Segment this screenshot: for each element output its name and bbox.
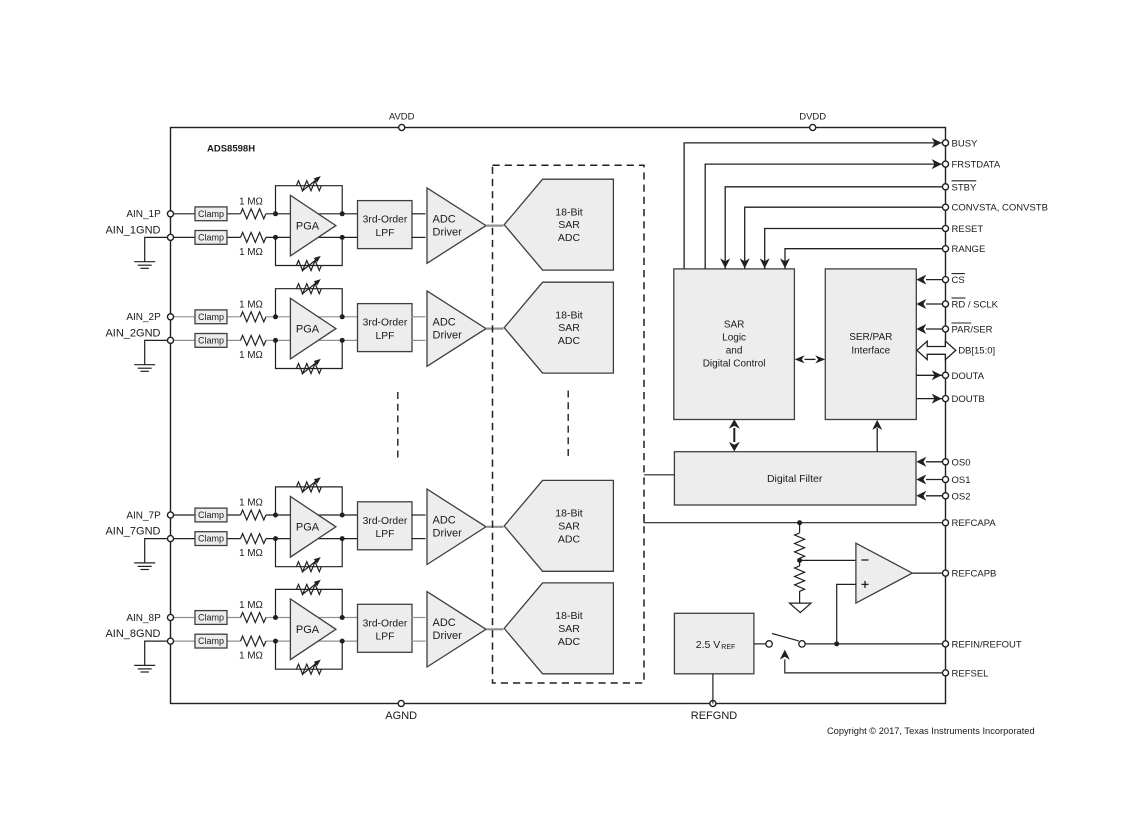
wire AIN_2GND to ground	[145, 340, 168, 364]
junction non-inverting tap on REFIN net	[834, 641, 839, 646]
svg-text:AIN_1P: AIN_1P	[126, 209, 161, 220]
svg-text:AIN_1GND: AIN_1GND	[105, 224, 160, 236]
arrow CONVSTA input to SAR logic	[740, 258, 750, 268]
arrow REFSEL actuates switch	[780, 650, 790, 660]
arrow STBY input to SAR logic	[720, 258, 730, 268]
svg-text:REFCAPB: REFCAPB	[952, 569, 997, 580]
svg-text:LPF: LPF	[376, 228, 395, 239]
junction channel 7 P feedback	[340, 513, 345, 518]
pin DOUTB	[942, 396, 948, 402]
arrow RESET input to SAR logic	[760, 258, 770, 268]
wire REFSEL control	[785, 660, 942, 673]
low-pass filter block channel 8	[358, 604, 413, 652]
wire AIN_7P input path	[171, 514, 241, 516]
svg-text:AGND: AGND	[385, 710, 417, 722]
pin AVDD	[399, 124, 405, 130]
wire AIN_2P input path	[171, 316, 241, 318]
wire STBY	[725, 187, 942, 269]
digital filter block	[674, 452, 916, 505]
wire feedback bottom channel 2	[276, 340, 343, 368]
svg-text:Clamp: Clamp	[198, 636, 224, 646]
variable resistor feedback bottom channel 8	[296, 664, 321, 674]
wire BUSY	[684, 143, 942, 269]
resistor reference divider upper	[799, 523, 801, 533]
svg-text:Clamp: Clamp	[198, 613, 224, 623]
wire feedback top channel 2	[276, 289, 343, 317]
wire ADC driver to SAR ADC channel 1	[486, 225, 503, 227]
svg-text:and: and	[726, 345, 743, 356]
wire AIN_7GND to ground	[145, 539, 168, 563]
wire AIN_2GND input path	[171, 339, 241, 341]
ground symbol reference divider	[790, 603, 812, 613]
pin AIN_8P	[167, 614, 173, 620]
svg-text:ADC: ADC	[558, 533, 581, 545]
variable resistor feedback top channel 8	[296, 584, 321, 594]
resistor 1 MOhm channel 8 P	[241, 613, 266, 623]
svg-text:3rd-Order: 3rd-Order	[363, 618, 408, 629]
pin AIN_7GND	[167, 536, 173, 542]
resistor 1 MOhm channel 7 GND	[241, 534, 266, 544]
wire feedback bottom channel 7	[276, 539, 343, 567]
wire AIN_1P input path	[171, 213, 241, 215]
device boundary ADS8598H	[171, 128, 946, 704]
ADC driver amplifier channel 8	[427, 592, 486, 667]
18-bit SAR ADC channel 1	[504, 179, 613, 270]
wire RD/SCLK input	[926, 303, 942, 305]
svg-text:ADC: ADC	[558, 335, 581, 347]
wire LPF to ADC driver channel 1 P	[412, 213, 426, 215]
junction divider midpoint	[797, 558, 802, 563]
svg-text:Clamp: Clamp	[198, 335, 224, 345]
pin REFGND	[710, 700, 716, 706]
svg-text:2.5 V: 2.5 V	[696, 639, 721, 651]
svg-text:Digital Filter: Digital Filter	[767, 473, 823, 485]
svg-text:ADS8598H: ADS8598H	[207, 144, 255, 155]
arrow RANGE input to SAR logic	[780, 258, 790, 268]
wire ADC driver to SAR ADC channel 2	[486, 328, 503, 330]
svg-text:FRSTDATA: FRSTDATA	[952, 160, 1001, 171]
svg-text:PAR/SER: PAR/SER	[952, 325, 993, 336]
wire VREF to REFGND	[712, 674, 714, 704]
junction channel 1 P input	[273, 211, 278, 216]
wire ADC driver to SAR ADC channel 8	[486, 628, 503, 630]
wire divider midpoint to op-amp inverting input	[800, 559, 856, 561]
svg-text:REFIN/REFOUT: REFIN/REFOUT	[952, 639, 1022, 650]
PGA amplifier channel 7	[290, 497, 336, 558]
svg-text:Clamp: Clamp	[198, 510, 224, 520]
pin RANGE	[942, 246, 948, 252]
svg-text:AIN_7GND: AIN_7GND	[105, 526, 160, 538]
svg-text:LPF: LPF	[376, 632, 395, 643]
switch blade	[772, 634, 799, 641]
wire RESET	[765, 229, 943, 269]
svg-text:18-Bit: 18-Bit	[555, 206, 583, 218]
svg-text:ADC: ADC	[433, 214, 456, 226]
wire LPF to ADC driver channel 8 GND	[412, 640, 426, 642]
svg-text:3rd-Order: 3rd-Order	[363, 516, 408, 527]
pin FRSTDATA	[942, 161, 948, 167]
voltage reference block 2.5 V	[674, 613, 754, 674]
wire DOUTA output	[916, 374, 942, 376]
ground symbol channel 2	[134, 364, 155, 366]
svg-text:Clamp: Clamp	[198, 209, 224, 219]
junction channel 8 GND feedback	[340, 639, 345, 644]
resistor 1 MOhm channel 1 P	[241, 209, 266, 219]
pin REFCAPB	[942, 570, 948, 576]
svg-text:REFCAPA: REFCAPA	[952, 518, 997, 529]
svg-text:REFGND: REFGND	[691, 710, 738, 722]
junction REFCAPA resistor tap	[797, 520, 802, 525]
ground symbol channel 8	[134, 664, 155, 666]
wire REFCAPA net	[644, 515, 942, 523]
arrow BUSY output	[932, 138, 942, 148]
junction channel 7 GND input	[273, 536, 278, 541]
pin AIN_2GND	[167, 337, 173, 343]
ADC driver amplifier channel 2	[427, 291, 486, 366]
svg-text:SAR: SAR	[558, 219, 580, 231]
svg-text:Logic: Logic	[722, 332, 746, 343]
resistor 1 MOhm channel 8 GND	[241, 636, 266, 646]
wire CONVSTA	[745, 207, 943, 269]
PGA amplifier channel 2	[290, 298, 336, 359]
clamp block channel 1 P	[195, 207, 227, 221]
SAR logic and digital control block	[674, 269, 795, 420]
wire feedback top channel 8	[276, 589, 343, 617]
svg-text:LPF: LPF	[376, 331, 395, 342]
svg-text:PGA: PGA	[296, 220, 320, 232]
svg-text:OS1: OS1	[952, 475, 971, 486]
PGA amplifier channel 1	[290, 195, 336, 256]
clamp block channel 2 GND	[195, 334, 227, 348]
svg-text:1 MΩ: 1 MΩ	[239, 299, 263, 310]
svg-text:OS0: OS0	[952, 457, 971, 468]
wire AIN_8GND to ground	[145, 641, 168, 665]
svg-text:SAR: SAR	[558, 623, 580, 635]
svg-text:1 MΩ: 1 MΩ	[239, 196, 263, 207]
variable resistor feedback bottom channel 1	[296, 261, 321, 271]
junction channel 8 P input	[273, 615, 278, 620]
svg-text:Copyright © 2017, Texas Instru: Copyright © 2017, Texas Instruments Inco…	[827, 726, 1035, 736]
pin REFSEL	[942, 670, 948, 676]
wire DOUTB output	[916, 398, 942, 400]
low-pass filter block channel 7	[358, 502, 413, 550]
svg-text:AIN_2GND: AIN_2GND	[105, 327, 160, 339]
ground symbol channel 1	[134, 261, 155, 263]
bus digital filter to SER/PAR interface	[876, 428, 878, 452]
variable resistor feedback bottom channel 2	[296, 364, 321, 374]
wire AIN_8GND input path	[171, 640, 241, 642]
wire RANGE	[785, 249, 942, 269]
low-pass filter block channel 2	[358, 304, 413, 352]
wire feedback top channel 1	[276, 186, 343, 214]
resistor 1 MOhm channel 7 P	[241, 510, 266, 520]
op-amp reference buffer	[856, 543, 912, 603]
pin RD / SCLK	[942, 301, 948, 307]
pin AGND	[398, 700, 404, 706]
bus DB[15:0] hollow double arrow	[917, 341, 956, 359]
18-bit SAR ADC channel 2	[504, 282, 613, 373]
resistor 1 MOhm channel 2 P	[241, 312, 266, 322]
resistor 1 MOhm channel 2 GND	[241, 335, 266, 345]
junction channel 1 GND feedback	[340, 235, 345, 240]
wire feedback bottom channel 8	[276, 641, 343, 669]
pin REFIN/REFOUT	[942, 641, 948, 647]
resistor reference divider lower	[799, 560, 801, 566]
junction channel 2 P feedback	[340, 314, 345, 319]
wire LPF to ADC driver channel 7 P	[412, 514, 426, 516]
wire LPF to ADC driver channel 2 GND	[412, 339, 426, 341]
continuation dashed line SAR ADC column	[567, 391, 569, 459]
wire feedback top channel 7	[276, 487, 343, 515]
pin AIN_1P	[167, 211, 173, 217]
pin AIN_8GND	[167, 638, 173, 644]
wire op-amp output to REFCAPB	[912, 572, 942, 574]
arrow FRSTDATA output	[932, 159, 942, 169]
junction channel 7 GND feedback	[340, 536, 345, 541]
wire LPF to ADC driver channel 8 P	[412, 617, 426, 619]
svg-text:ADC: ADC	[558, 636, 581, 648]
pin AIN_1GND	[167, 234, 173, 240]
svg-text:REFSEL: REFSEL	[952, 668, 989, 679]
junction channel 1 GND input	[273, 235, 278, 240]
pin DOUTA	[942, 372, 948, 378]
svg-text:18-Bit: 18-Bit	[555, 610, 583, 622]
svg-text:Clamp: Clamp	[198, 534, 224, 544]
pin RESET	[942, 225, 948, 231]
wire VREF to switch	[754, 643, 766, 645]
svg-text:Digital Control: Digital Control	[703, 358, 766, 369]
junction channel 7 P input	[273, 513, 278, 518]
wire feedback bottom channel 1	[276, 237, 343, 265]
wire OS1 input	[926, 479, 942, 481]
svg-text:Driver: Driver	[433, 330, 463, 342]
svg-text:1 MΩ: 1 MΩ	[239, 548, 263, 559]
junction channel 1 P feedback	[340, 211, 345, 216]
wire AIN_1GND input path	[171, 236, 241, 238]
svg-text:OS2: OS2	[952, 491, 971, 502]
svg-text:SER/PAR: SER/PAR	[849, 332, 892, 343]
svg-text:DOUTA: DOUTA	[952, 371, 985, 382]
wire LPF to ADC driver channel 1 GND	[412, 236, 426, 238]
svg-text:AIN_8GND: AIN_8GND	[105, 628, 160, 640]
18-bit SAR ADC channel 7	[504, 480, 613, 571]
svg-text:1 MΩ: 1 MΩ	[239, 600, 263, 611]
bidirectional bus SAR logic to SER/PAR	[805, 358, 816, 360]
svg-text:REF: REF	[721, 644, 735, 651]
resistor 1 MOhm channel 1 GND	[241, 232, 266, 242]
svg-text:PGA: PGA	[296, 522, 320, 534]
svg-text:CONVSTA, CONVSTB: CONVSTA, CONVSTB	[952, 203, 1048, 214]
svg-text:DVDD: DVDD	[799, 112, 826, 123]
18-bit SAR ADC channel 8	[504, 583, 613, 674]
svg-text:RD / SCLK: RD / SCLK	[952, 300, 999, 311]
ADC driver amplifier channel 1	[427, 188, 486, 263]
pin CONVSTA	[942, 204, 948, 210]
svg-text:18-Bit: 18-Bit	[555, 508, 583, 520]
junction channel 8 GND input	[273, 639, 278, 644]
wire OS0 input	[926, 461, 942, 463]
wire digital filter to ADC group	[644, 474, 674, 476]
svg-text:STBY: STBY	[952, 182, 977, 193]
pin AIN_7P	[167, 512, 173, 518]
wire OS2 input	[926, 495, 942, 497]
svg-text:1 MΩ: 1 MΩ	[239, 247, 263, 258]
svg-text:ADC: ADC	[433, 317, 456, 329]
variable resistor feedback bottom channel 7	[296, 562, 321, 572]
pin STBY	[942, 184, 948, 190]
svg-text:SAR: SAR	[724, 319, 745, 330]
SER/PAR interface block	[825, 269, 916, 420]
pin DVDD	[810, 124, 816, 130]
wire LPF to ADC driver channel 7 GND	[412, 538, 426, 540]
clamp block channel 7 GND	[195, 532, 227, 546]
svg-text:PGA: PGA	[296, 323, 320, 335]
svg-text:ADC: ADC	[433, 617, 456, 629]
dashed group box SAR ADC array	[493, 165, 645, 683]
pin REFCAPA	[942, 520, 948, 526]
svg-text:PGA: PGA	[296, 624, 320, 636]
wire AIN_7GND input path	[171, 538, 241, 540]
pin OS1	[942, 476, 948, 482]
svg-text:AIN_2P: AIN_2P	[126, 312, 161, 323]
svg-text:LPF: LPF	[376, 529, 395, 540]
clamp block channel 8 P	[195, 611, 227, 625]
wire ADC driver to SAR ADC channel 7	[486, 526, 503, 528]
svg-text:ADC: ADC	[433, 515, 456, 527]
svg-text:1 MΩ: 1 MΩ	[239, 350, 263, 361]
svg-text:Driver: Driver	[433, 227, 463, 239]
junction channel 2 GND input	[273, 338, 278, 343]
svg-text:RANGE: RANGE	[952, 244, 986, 255]
clamp block channel 1 GND	[195, 231, 227, 245]
pin AIN_2P	[167, 314, 173, 320]
svg-text:BUSY: BUSY	[952, 138, 979, 149]
svg-text:CS: CS	[952, 275, 965, 286]
svg-text:3rd-Order: 3rd-Order	[363, 318, 408, 329]
clamp block channel 8 GND	[195, 634, 227, 648]
svg-text:3rd-Order: 3rd-Order	[363, 215, 408, 226]
svg-text:Driver: Driver	[433, 630, 463, 642]
svg-text:Driver: Driver	[433, 528, 463, 540]
pin OS0	[942, 459, 948, 465]
pin CS	[942, 277, 948, 283]
low-pass filter block channel 1	[358, 201, 413, 249]
bidirectional bus SAR logic to digital filter	[733, 428, 735, 442]
wire AIN_8P input path	[171, 617, 241, 619]
variable resistor feedback top channel 1	[296, 181, 321, 191]
svg-text:1 MΩ: 1 MΩ	[239, 651, 263, 662]
wire switch to REFIN/REFOUT	[805, 643, 942, 645]
junction channel 2 GND feedback	[340, 338, 345, 343]
variable resistor feedback top channel 7	[296, 482, 321, 492]
wire op-amp non-inverting input to REFIN	[837, 584, 856, 644]
svg-text:AIN_8P: AIN_8P	[126, 613, 161, 624]
pin OS2	[942, 493, 948, 499]
wire LPF to ADC driver channel 2 P	[412, 316, 426, 318]
PGA amplifier channel 8	[290, 599, 336, 660]
pin PAR/SER	[942, 326, 948, 332]
junction channel 2 P input	[273, 314, 278, 319]
svg-text:SAR: SAR	[558, 322, 580, 334]
svg-text:DOUTB: DOUTB	[952, 394, 985, 405]
svg-text:SAR: SAR	[558, 520, 580, 532]
svg-text:Clamp: Clamp	[198, 312, 224, 322]
wire CS input	[926, 279, 942, 281]
svg-text:AVDD: AVDD	[389, 112, 415, 123]
svg-text:18-Bit: 18-Bit	[555, 309, 583, 321]
svg-text:AIN_7P: AIN_7P	[126, 510, 161, 521]
pin BUSY	[942, 140, 948, 146]
variable resistor feedback top channel 2	[296, 284, 321, 294]
switch REFSEL pole	[766, 641, 772, 647]
junction channel 8 P feedback	[340, 615, 345, 620]
svg-text:Interface: Interface	[851, 346, 890, 357]
svg-text:1 MΩ: 1 MΩ	[239, 498, 263, 509]
wire AIN_1GND to ground	[145, 237, 168, 261]
clamp block channel 7 P	[195, 508, 227, 522]
svg-text:DB[15:0]: DB[15:0]	[958, 346, 995, 357]
svg-text:ADC: ADC	[558, 232, 581, 244]
ground symbol channel 7	[134, 562, 155, 564]
wire PAR/SER input	[926, 328, 942, 330]
ADC driver amplifier channel 7	[427, 489, 486, 564]
svg-text:Clamp: Clamp	[198, 232, 224, 242]
clamp block channel 2 P	[195, 310, 227, 324]
wire FRSTDATA	[705, 164, 942, 269]
continuation dashed line analog channels	[397, 392, 399, 459]
svg-text:RESET: RESET	[952, 224, 984, 235]
